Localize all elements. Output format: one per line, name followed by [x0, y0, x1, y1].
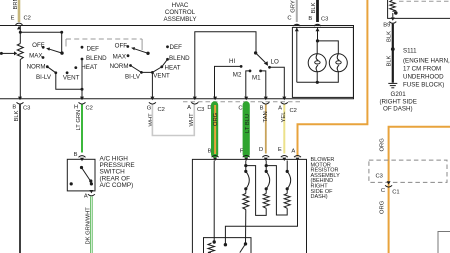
wire ORG from fuse block to blower pin A: [291, 0, 367, 157]
connector C3 exit BLK pin B: [12, 97, 30, 112]
svg-text:NORM: NORM: [110, 63, 129, 70]
svg-text:C2: C2: [290, 108, 297, 114]
node: lamp top junction: [316, 39, 319, 42]
HVAC control assembly box: [0, 26, 354, 99]
svg-text:H: H: [74, 104, 78, 110]
blower switch labels: [229, 58, 279, 82]
svg-text:C3: C3: [197, 107, 204, 113]
underhood fuse block box (partial): [388, 0, 450, 18]
svg-text:ORG: ORG: [380, 200, 386, 214]
svg-text:DEF: DEF: [170, 44, 183, 51]
svg-text:YEL: YEL: [281, 111, 287, 123]
svg-text:LT GRN: LT GRN: [76, 110, 82, 131]
blower switch wiper: [254, 51, 268, 66]
mode switch 1 wiper: [46, 48, 64, 55]
svg-text:C: C: [287, 15, 291, 21]
connector B9 at fuse block bottom: [383, 13, 396, 28]
wire: blower HI feed W1: [213, 161, 215, 243]
node: junction dot at switch feed: [60, 31, 63, 34]
svg-text:G201: G201: [391, 91, 407, 98]
svg-text:C3: C3: [321, 17, 328, 23]
svg-text:C1: C1: [392, 190, 399, 196]
svg-text:D: D: [207, 105, 211, 111]
svg-text:A: A: [291, 149, 295, 155]
mode switch 1 contacts: [42, 46, 84, 74]
svg-text:WHT: WHT: [148, 113, 154, 127]
svg-text:HI: HI: [229, 58, 235, 65]
wire ORG #2 from right edge through C1: [380, 127, 450, 253]
mode switch 2 contacts: [126, 45, 169, 74]
wire: M2 contact to LT BLU output: [246, 71, 250, 99]
dashed connector separator line C3/C2: [183, 101, 300, 103]
svg-text:B: B: [74, 152, 78, 158]
svg-text:A: A: [187, 105, 191, 111]
A/C switch contacts and blade: [70, 166, 93, 186]
wire WHT jumper loop: [152, 105, 194, 136]
svg-text:VENT: VENT: [63, 75, 80, 82]
connector C2 on BRN wire at box top: [16, 23, 23, 29]
A/C high pressure switch box: [67, 159, 95, 191]
mode switch 1 position labels: [27, 42, 108, 81]
svg-text:TAN: TAN: [263, 111, 269, 122]
panel lamps box: [292, 27, 353, 97]
blower switch contacts: [240, 65, 271, 72]
svg-text:G: G: [147, 106, 152, 112]
svg-text:C3: C3: [23, 106, 30, 112]
blower motor resistor assembly box: [192, 159, 306, 253]
wire: VENT contact drop to WHT output: [151, 72, 153, 98]
svg-text:D: D: [259, 147, 263, 153]
svg-text:CONTROL: CONTROL: [165, 9, 196, 16]
svg-text:LT BLU: LT BLU: [245, 114, 251, 133]
svg-text:E: E: [278, 147, 282, 153]
svg-text:C3: C3: [376, 174, 383, 180]
wire ORG (HI) highlighted, pin D to blower pin B: [207, 97, 219, 158]
connector exit TAN pin B: [260, 97, 270, 112]
wire: W3 (M1) resistor chain: [263, 161, 287, 216]
wire LT BLU (M2) highlighted, pin C to blower pin F: [238, 97, 251, 158]
svg-text:BLK: BLK: [387, 55, 393, 66]
wire: W4 (LO) resistor chain: [284, 161, 291, 210]
svg-text:M1: M1: [252, 75, 261, 82]
wire TAN to blower pin D: [259, 105, 269, 154]
wire YEL to blower pin E: [278, 105, 287, 154]
svg-text:HVAC: HVAC: [172, 2, 189, 9]
svg-text:DEF: DEF: [87, 46, 100, 53]
svg-text:A/C COMP): A/C COMP): [100, 182, 134, 189]
svg-text:VENT: VENT: [153, 73, 170, 80]
dashed connector pass-through box C3: [369, 160, 447, 182]
blower resistor pin connectors at box top: [212, 156, 301, 162]
switch blade contact in sub box: [240, 242, 247, 252]
node: lamp bottom junction: [316, 81, 319, 84]
mechanical linkage (dashed) between mode switch wafers: [66, 39, 142, 50]
svg-text:FUSE BLOCK): FUSE BLOCK): [403, 82, 444, 89]
wire: BLEND contact drop to LT GRN output: [81, 59, 83, 99]
svg-text:F: F: [240, 149, 244, 155]
connector at A/C switch top: [79, 156, 86, 162]
svg-text:NORM: NORM: [27, 64, 46, 71]
wire: LO contact to YEL output: [270, 67, 285, 99]
svg-text:E: E: [11, 15, 15, 21]
connector C2 exit LT GRN pin H: [74, 97, 93, 112]
svg-text:BRN: BRN: [13, 0, 19, 10]
wire: BI-LV contact drop: [56, 73, 82, 90]
wire: W5 (ORG) common rail: [224, 161, 298, 247]
svg-text:C: C: [381, 188, 385, 194]
svg-text:ORG: ORG: [380, 138, 386, 152]
blower motor resistor assembly label: [311, 157, 341, 200]
motor coil resistor: [208, 243, 215, 253]
svg-text:C2: C2: [24, 16, 31, 22]
connector at A/C switch bottom pin A: [84, 190, 95, 199]
svg-text:A: A: [278, 106, 282, 112]
svg-text:OF DASH): OF DASH): [383, 105, 413, 112]
svg-text:MAX: MAX: [113, 54, 126, 61]
connector on GRY wire: [293, 24, 300, 31]
lamp 2: [329, 54, 347, 72]
node: W1 dot on motor coil: [213, 240, 216, 243]
box at bottom right corner (partial): [438, 232, 450, 253]
wire BLK (pin B, C3) at top: [308, 0, 328, 23]
blower motor sub box: [204, 238, 252, 253]
svg-text:HEAT: HEAT: [165, 65, 181, 72]
svg-text:BLK: BLK: [311, 2, 317, 13]
svg-text:BI-LV: BI-LV: [125, 74, 141, 81]
svg-text:OFF: OFF: [115, 43, 128, 50]
node: junction dot at resistor top: [19, 31, 22, 34]
wire: WHT pin A feed to blower switch: [195, 32, 256, 99]
svg-text:C: C: [238, 106, 242, 112]
wire LT GRN to A/C pressure switch: [76, 105, 82, 153]
wire: mode switch 2 contact chain: [131, 59, 168, 72]
svg-text:BLEND: BLEND: [169, 55, 190, 62]
wire: BLK feed to lamp tops: [317, 27, 338, 54]
blower relay coil in fuse block: [390, 0, 396, 12]
connector C1 on ORG wire: [381, 181, 400, 195]
wire BLK to ground G201: [387, 24, 393, 83]
mode switch 1 wiper feed: [61, 32, 63, 53]
svg-text:LO: LO: [271, 58, 279, 65]
wire: HI contact to ORG output: [215, 66, 242, 98]
node: junction dot BI-LV/BLEND: [81, 88, 84, 91]
lamp 1: [308, 54, 326, 72]
svg-text:B: B: [208, 149, 212, 155]
wire DK GRN/WHT to bottom: [85, 196, 91, 253]
wire: W2 (M2) resistor chain: [243, 161, 266, 244]
wire: GRY feed inside lamp box: [296, 27, 298, 82]
connector C2 exit YEL pin A: [278, 97, 297, 114]
A/C high pressure switch label: [100, 155, 135, 189]
wire: M1 contact to TAN output: [261, 71, 266, 99]
svg-text:DASH): DASH): [311, 194, 328, 200]
svg-text:B: B: [260, 106, 264, 112]
svg-text:S111: S111: [403, 48, 417, 55]
svg-text:BLK: BLK: [14, 110, 20, 121]
resistor (blower rheostat): [17, 44, 23, 99]
svg-text:M2: M2: [233, 72, 242, 79]
svg-text:DK GRN/WHT: DK GRN/WHT: [85, 207, 91, 245]
svg-text:BLK: BLK: [387, 31, 393, 42]
splice S111: [391, 47, 450, 88]
ground G201: [380, 83, 417, 112]
connector C3 on BLK wire: [314, 24, 321, 31]
svg-text:MAX: MAX: [29, 52, 42, 59]
svg-text:17 CM FROM: 17 CM FROM: [403, 66, 441, 73]
svg-text:BLEND: BLEND: [86, 55, 107, 62]
wire BRN (pin E, C2) at top left: [11, 0, 31, 22]
svg-text:A: A: [84, 193, 88, 199]
wire GRY (pin C) at top: [287, 0, 296, 22]
svg-text:C2: C2: [158, 107, 165, 113]
svg-text:B: B: [12, 104, 16, 110]
node: coil junction dot: [394, 11, 398, 15]
svg-text:HEAT: HEAT: [81, 64, 97, 71]
svg-text:OFF: OFF: [32, 42, 45, 49]
mode switch 2 position labels: [110, 43, 191, 81]
wire: NORM to BI-LV link: [47, 67, 56, 73]
svg-text:(RIGHT SIDE: (RIGHT SIDE: [380, 98, 417, 105]
mode switch 2 wiper: [131, 47, 150, 55]
wire: power feed line inside box: [20, 26, 61, 44]
svg-text:ORG: ORG: [213, 112, 219, 126]
connector C2 exit WHT pin G: [147, 97, 165, 127]
svg-text:(ENGINE HARN,: (ENGINE HARN,: [403, 58, 450, 65]
connector C3 entry WHT pin A: [187, 97, 204, 127]
svg-text:ASSEMBLY: ASSEMBLY: [164, 16, 197, 23]
svg-text:C2: C2: [86, 106, 93, 112]
svg-text:UNDERHOOD: UNDERHOOD: [403, 74, 444, 81]
wire: lamp bottoms rail: [297, 72, 339, 83]
wire BLK to bottom: [14, 105, 20, 253]
wire: rheostat wiper tap from left edge: [0, 51, 17, 55]
HVAC control assembly label: [164, 2, 197, 23]
svg-text:B: B: [308, 16, 312, 22]
svg-text:B9: B9: [383, 22, 390, 28]
svg-text:GRY: GRY: [290, 0, 296, 13]
svg-text:BI-LV: BI-LV: [36, 74, 52, 81]
